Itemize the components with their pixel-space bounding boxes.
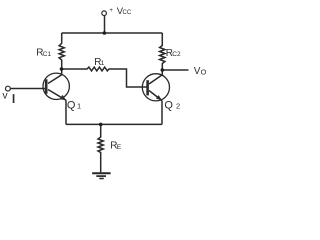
svg-text:CC: CC xyxy=(123,10,132,16)
svg-text:Q: Q xyxy=(164,99,173,111)
svg-text:+: + xyxy=(109,7,113,14)
svg-text:1: 1 xyxy=(77,102,81,111)
svg-text:C1: C1 xyxy=(43,51,52,58)
svg-text:v: v xyxy=(2,89,8,101)
svg-text:E: E xyxy=(117,144,122,151)
svg-text:C2: C2 xyxy=(172,51,181,58)
svg-text:Q: Q xyxy=(67,99,76,111)
svg-text:O: O xyxy=(201,67,207,76)
svg-text:1: 1 xyxy=(101,60,105,67)
svg-text:2: 2 xyxy=(176,102,180,111)
